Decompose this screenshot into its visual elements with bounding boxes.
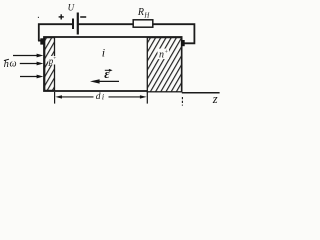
dimension d_i right tick: [146, 92, 148, 104]
label d_i: [96, 92, 104, 102]
svg-text:d: d: [96, 92, 101, 102]
field arrow pointing left: [90, 79, 119, 83]
dashed tick below n+ right edge: [181, 97, 183, 106]
left electrode: [40, 38, 45, 44]
svg-text:ω: ω: [10, 59, 17, 70]
p+ hatched region: [45, 38, 55, 91]
minus sign: [80, 16, 86, 18]
svg-text:R: R: [137, 7, 144, 18]
wire: battery to resistor: [78, 23, 134, 25]
photon arrow 2: [20, 62, 44, 66]
svg-text:U: U: [68, 3, 75, 13]
device outline rectangle: [44, 37, 182, 91]
speck above left corner: [38, 17, 39, 18]
battery U: short plate (+): [72, 19, 74, 30]
right electrode: [181, 40, 185, 46]
dimension line right part with right arrowhead: [109, 95, 147, 98]
photon arrow 1: [13, 54, 43, 58]
wire: resistor to right corner and down to device: [153, 24, 195, 43]
svg-text:+: +: [53, 56, 56, 62]
resistor RH box: [133, 20, 153, 27]
svg-text:i: i: [102, 45, 105, 59]
label n+: [158, 49, 170, 61]
svg-text:z: z: [212, 92, 218, 106]
dimension d_i left tick: [54, 92, 56, 104]
label E field with vector arrow: [104, 66, 112, 81]
battery U: long plate (-): [77, 13, 79, 35]
plus sign: [59, 14, 64, 19]
n+ hatched region: [147, 38, 181, 92]
photon arrow 3: [20, 75, 43, 79]
wire: left vertical from device up and top-left segment to battery: [39, 24, 72, 41]
svg-text:n: n: [159, 50, 164, 61]
svg-text:i: i: [102, 92, 104, 101]
label p+: [48, 56, 57, 66]
wire: stub from left wire to top electrode: [38, 40, 42, 42]
dimension line left part with left arrowhead: [55, 95, 93, 98]
svg-text:ε: ε: [104, 66, 110, 81]
z axis line: [182, 92, 220, 94]
label h-bar omega: [4, 59, 17, 70]
